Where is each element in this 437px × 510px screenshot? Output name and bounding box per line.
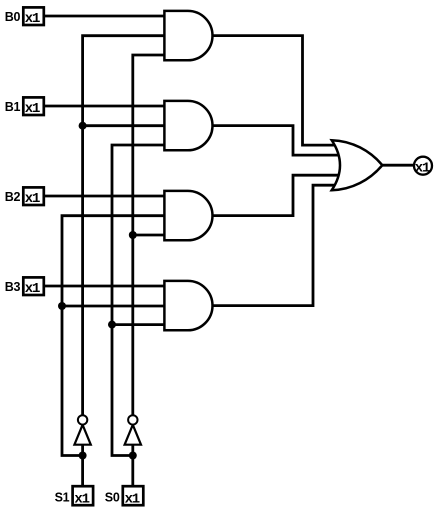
svg-text:x1: x1 (25, 281, 40, 297)
svg-text:B3: B3 (5, 280, 21, 294)
junction dot net S1n / AND2 in2 (79, 122, 87, 130)
output terminal x1 (414, 157, 432, 177)
input box S0 (105, 486, 144, 507)
and-gate U2 (164, 101, 212, 150)
svg-text:B1: B1 (5, 100, 21, 114)
inverter U7 bubble (128, 415, 137, 424)
wire S0 box to inverter U7 input (131, 444, 134, 486)
wire AND1 output to OR U5 in1 (211, 36, 338, 146)
junction dot net S1 / AND4 in2 (58, 302, 66, 310)
or-gate U5 (332, 140, 383, 190)
svg-text:x1: x1 (415, 161, 430, 177)
input box B2 (5, 187, 44, 207)
input box B1 (5, 97, 44, 117)
wire B1 box to AND2 in1 (44, 105, 166, 108)
input box S1 (55, 486, 94, 507)
wire S1 box to inverter U6 input (81, 444, 84, 486)
svg-text:x1: x1 (125, 492, 140, 508)
wire B2 box to AND3 in1 (44, 195, 166, 198)
svg-text:S1: S1 (55, 490, 70, 504)
svg-text:B0: B0 (5, 10, 21, 24)
input box B0 (5, 7, 44, 27)
wire net S1n from inverter U6 output up to AND1 in2 (83, 36, 166, 416)
svg-text:x1: x1 (25, 101, 40, 117)
and-gate U3 (164, 191, 212, 240)
svg-text:x1: x1 (25, 11, 40, 27)
inverter U6 bubble (78, 415, 87, 424)
and-gate U1 (164, 11, 212, 60)
svg-text:x1: x1 (25, 191, 40, 207)
wire net S1 from S1 box up to AND3 in2 (62, 216, 166, 456)
wire AND2 output to OR U5 in2 (211, 126, 342, 156)
svg-text:B2: B2 (5, 190, 21, 204)
svg-text:S0: S0 (105, 490, 120, 504)
wire net S1n branch to AND2 in2 (83, 124, 166, 127)
wire B0 box to AND1 in1 (44, 15, 166, 18)
wire net S0n from inverter U7 output up to AND1 in3 (133, 55, 166, 415)
inverter U7 triangle (125, 425, 141, 445)
wire OR U5 output to terminal x1 (381, 164, 414, 167)
input box B3 (5, 277, 44, 297)
and-gate U4 (164, 281, 212, 330)
junction dot net S0 / AND4 in3 (108, 321, 116, 329)
wire net S0 from S0 box up to AND2 in3 (112, 145, 166, 456)
svg-text:x1: x1 (74, 492, 89, 508)
junction dot net S0 at inverter input (129, 452, 137, 460)
wire AND4 output to OR U5 in4 (211, 185, 338, 305)
wire AND3 output to OR U5 in3 (211, 175, 342, 215)
inverter U6 triangle (74, 425, 90, 445)
wire net S0 branch to AND4 in3 (112, 323, 166, 326)
wire B3 box to AND4 in1 (44, 285, 166, 288)
junction dot net S0n / AND3 in3 (129, 231, 137, 239)
junction dot net S1 at inverter input (79, 452, 87, 460)
wire net S1 branch to AND4 in2 (62, 305, 166, 308)
wire net S0n branch to AND3 in3 (133, 234, 166, 237)
